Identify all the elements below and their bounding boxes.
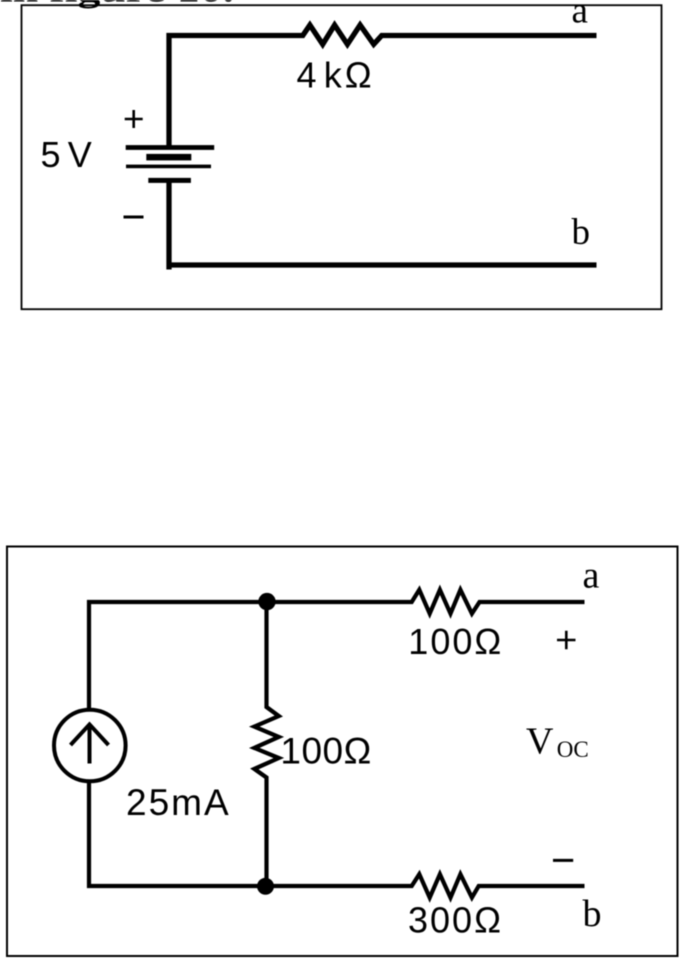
frame box of second circuit (7, 547, 678, 957)
svg-text:b: b (572, 212, 591, 253)
battery V1 plate 1 (long) (126, 145, 215, 150)
wire: bottom rail with 300Ω series resistor to terminal b (89, 782, 585, 898)
node junction dot (top) (258, 593, 275, 610)
svg-text:OC: OC (557, 737, 589, 762)
current source I1 circle (54, 710, 126, 782)
battery plus sign (125, 110, 143, 128)
svg-text:300Ω: 300Ω (408, 899, 503, 940)
wire: top loop with resistor (left vertical + top horizontal to terminal a) (169, 25, 597, 147)
battery V1 plate 2 (short thick) (146, 154, 191, 161)
svg-text:a: a (583, 554, 600, 596)
svg-text:a: a (572, 0, 588, 31)
svg-text:4 k Ω: 4 k Ω (297, 54, 372, 95)
node junction dot (bottom) (257, 878, 274, 895)
svg-text:100Ω: 100Ω (280, 730, 371, 771)
battery minus sign (124, 216, 144, 219)
Voc minus sign (553, 859, 573, 862)
svg-text:V: V (526, 721, 554, 763)
svg-text:5 V: 5 V (41, 134, 92, 175)
current source I1 arrow (71, 724, 109, 763)
wire: bottom return (battery to terminal b) (169, 181, 597, 270)
svg-text:b: b (583, 893, 602, 935)
battery V1 plate 3 (long thin) (126, 165, 211, 169)
wire: top rail with 100Ω series resistor to terminal a (89, 590, 585, 710)
battery V1 plate 4 (short) (148, 178, 191, 183)
Voc plus sign (557, 631, 576, 650)
frame box of first circuit (22, 5, 662, 309)
svg-text:25mA: 25mA (126, 782, 231, 823)
svg-text:100Ω: 100Ω (408, 621, 503, 662)
wire: middle branch with vertical 100Ω resistor (254, 602, 278, 886)
